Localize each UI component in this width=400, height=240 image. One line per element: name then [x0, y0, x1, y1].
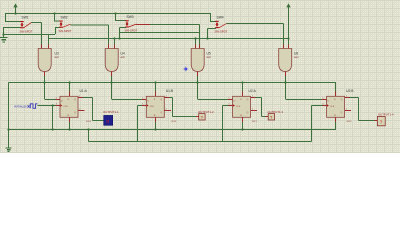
svg-text:CLK: CLK [236, 106, 241, 108]
node: junction rail/arrow x15 [14, 12, 16, 14]
svg-text:U5: U5 [207, 51, 211, 55]
node: junction bus/U5.B x195.5 [194, 37, 196, 39]
node: junction y82.5/U2:A set [241, 81, 243, 83]
indicator OUTPUT1-2 (logic probe) [198, 110, 214, 120]
svg-text:U4: U4 [121, 51, 125, 55]
wire: set drops to flip-flop top pins [70, 83, 336, 97]
svg-text:0: 0 [106, 119, 109, 125]
ground (top left, for SW1) [0, 38, 8, 42]
wire: rail corner down to SW1 top throw [5, 13, 21, 22]
svg-text:Q: Q [341, 99, 343, 101]
node: junction bus/P2/U6.B x288.5 [287, 37, 289, 39]
svg-text:U2:A: U2:A [249, 89, 257, 93]
node: junction y82.5/U1:A set [68, 81, 70, 83]
wire: rail drop to SW2 top throw [54, 13, 60, 21]
svg-text:SW-SPDT: SW-SPDT [125, 29, 138, 33]
switch SW4 (SW-SPDT) [215, 16, 228, 34]
svg-text:Q: Q [160, 99, 162, 101]
wire: rail end corner down to SW4 top throw [210, 13, 216, 21]
wire: U6 output down to U2:B pin D [286, 76, 323, 100]
indicator OUTPUT1-4 (logic probe) [377, 112, 394, 125]
node: junction y82.5/U4 out [110, 81, 112, 83]
and-gate U6 [279, 45, 299, 78]
svg-text:CLK: CLK [64, 106, 69, 108]
and-gate U3 [38, 45, 59, 78]
flip-flop U2:A (4013) [228, 89, 257, 123]
svg-text:CLK: CLK [150, 106, 155, 108]
wire: U1:A Q output run to indicator and U1:B clock [83, 98, 104, 121]
svg-text:SW-SPDT: SW-SPDT [59, 29, 72, 33]
switch SW2 (SW-SPDT) [59, 15, 72, 33]
svg-text:AND: AND [120, 56, 126, 59]
node: junction y82.5/U3 out [43, 81, 45, 83]
wire: clock generator to U1:A clock pin [37, 105, 55, 107]
svg-text:OUTPUT1-4: OUTPUT1-4 [378, 112, 394, 116]
svg-text:SW3: SW3 [127, 15, 134, 19]
wire: enable bus y=38.3 [49, 34, 289, 45]
svg-text:SW-SPDT: SW-SPDT [215, 29, 228, 33]
wire: SW1 pole to gate U3 input A [32, 23, 42, 46]
svg-text:4013: 4013 [171, 121, 177, 123]
node: junction bus/SW4 bottom x207.5 [206, 37, 208, 39]
wire: branch line y=32.3 from SW3 bottom drop to U5 input A drop [120, 32, 200, 34]
power symbol P1 (+V arrow, top left) [13, 3, 17, 14]
node: junction y82.5/U5 out [196, 81, 198, 83]
power symbol P2 (+V arrow, x288) [286, 3, 290, 45]
wire: set-pin distribution line y=82.5 (x0 to x331) [9, 82, 337, 84]
wire: rail drop to SW3 top throw [115, 13, 126, 21]
node: junction rail x54 [53, 12, 55, 14]
wire: SW2 pole to gate U4 input A [71, 25, 109, 45]
svg-text:Q: Q [160, 112, 162, 114]
wire: top supply rail y=14 from x5 to x210 [5, 13, 210, 15]
wire: U5 output down to U2:A pin D [198, 76, 229, 100]
svg-text:INITIAL(0): INITIAL(0) [14, 104, 26, 108]
svg-text:?: ? [380, 119, 383, 124]
wire: clock net drop to bus [52, 106, 54, 130]
node: junction clock net [52, 104, 54, 106]
wire: SW3 bottom throw down to bus y38 [120, 28, 127, 39]
svg-text:U2:B: U2:B [346, 89, 354, 93]
node: junction bottom bus/U2:A reset [241, 128, 243, 130]
node: origin marker (blue cross) [185, 68, 187, 70]
node: junction bus/U4.B x114.5 [113, 37, 115, 39]
svg-text:AND: AND [293, 56, 299, 59]
wire: clock feed for U2:B from lower run y141 [89, 106, 323, 142]
node: junction bottom bus/ground riser [7, 128, 9, 130]
svg-text:SW-SPDT: SW-SPDT [20, 29, 33, 33]
and-gate U5 [191, 45, 211, 78]
node: junction bus/SW3 bottom x119.5 [118, 37, 120, 39]
svg-text:U1:B: U1:B [166, 89, 174, 93]
wire: SW4 pole to gate U6 input A [227, 23, 284, 45]
wire: ground link line y=34 (x3 to x55) [3, 34, 55, 36]
svg-text:SW4: SW4 [217, 16, 224, 20]
wire: U2:B Q output run to indicator OUTPUT1-4 [350, 98, 378, 121]
wire: U1:B Q output run to indicator and U2:A clock [169, 98, 198, 117]
svg-text:SW2: SW2 [61, 15, 68, 19]
node: junction y82.5/U6 out [284, 81, 286, 83]
switch SW3 (SW-SPDT) [125, 15, 138, 33]
node: junction bottom bus/clock drop [52, 128, 54, 130]
node: junction bottom bus/U1:A reset [68, 128, 70, 130]
node: junction x3,y34 [2, 33, 4, 35]
wire: U2:A Q output run to indicator [256, 98, 269, 117]
wire: clock riser to U1:B CLK [138, 106, 143, 142]
flip-flop U1:B (4013) [142, 89, 177, 123]
svg-text:U3: U3 [55, 51, 59, 55]
svg-text:CLK: CLK [330, 106, 335, 108]
wire: flip-flop bottom pins to bus [70, 122, 336, 129]
svg-text:AND: AND [206, 56, 212, 59]
svg-text:Q: Q [341, 112, 343, 114]
switch SW1 (SW-SPDT) [20, 16, 33, 34]
svg-text:4013: 4013 [252, 121, 258, 123]
flip-flop U1:A (4013) [56, 89, 92, 123]
clock generator (blue DCLOCK icon) [14, 104, 37, 109]
svg-text:AND: AND [54, 56, 60, 59]
wire: bus drop to U4 input B [114, 39, 116, 46]
svg-text:U6: U6 [294, 51, 298, 55]
node: junction y82.5/U1:B set [154, 81, 156, 83]
node: junction bottom bus/U1:B reset [154, 128, 156, 130]
svg-text:OUTPUT1-1: OUTPUT1-1 [103, 110, 119, 114]
wire: reset/ground bus y=129 [9, 129, 337, 131]
indicator OUTPUT1-3 (logic probe) [268, 110, 284, 120]
and-gate U4 [105, 45, 125, 78]
svg-text:Q: Q [247, 112, 249, 114]
svg-text:4013: 4013 [347, 121, 353, 123]
wire: U4 output down to U1:B pin D [112, 76, 142, 100]
wire: U3 output down to U1:A pin D [45, 76, 56, 100]
indicator OUTPUT1-1 (blue logic state 0) [103, 110, 119, 125]
wire: bus drop to U5 input B [195, 39, 197, 46]
node: junction rail x115 [114, 12, 116, 14]
wire: SW3 pole to gate U5 input A [136, 25, 200, 45]
wire: SW1 bottom throw to ground [3, 28, 21, 38]
wire: SW4 bottom throw down to bus y38 [208, 28, 217, 38]
svg-text:Q: Q [74, 112, 76, 114]
svg-text:4013: 4013 [86, 121, 92, 123]
wire: SW2 bottom throw to ground line [55, 28, 60, 35]
node: junction bottom bus/y141 riser [87, 128, 89, 130]
ground (bottom left) [6, 148, 12, 152]
flip-flop U2:B (4013) [322, 89, 354, 123]
svg-text:U1:A: U1:A [80, 89, 88, 93]
svg-text:SW1: SW1 [22, 16, 29, 20]
wire: clock riser to U2:A CLK [223, 106, 229, 142]
svg-text:Q: Q [74, 99, 76, 101]
svg-text:Q: Q [247, 99, 249, 101]
